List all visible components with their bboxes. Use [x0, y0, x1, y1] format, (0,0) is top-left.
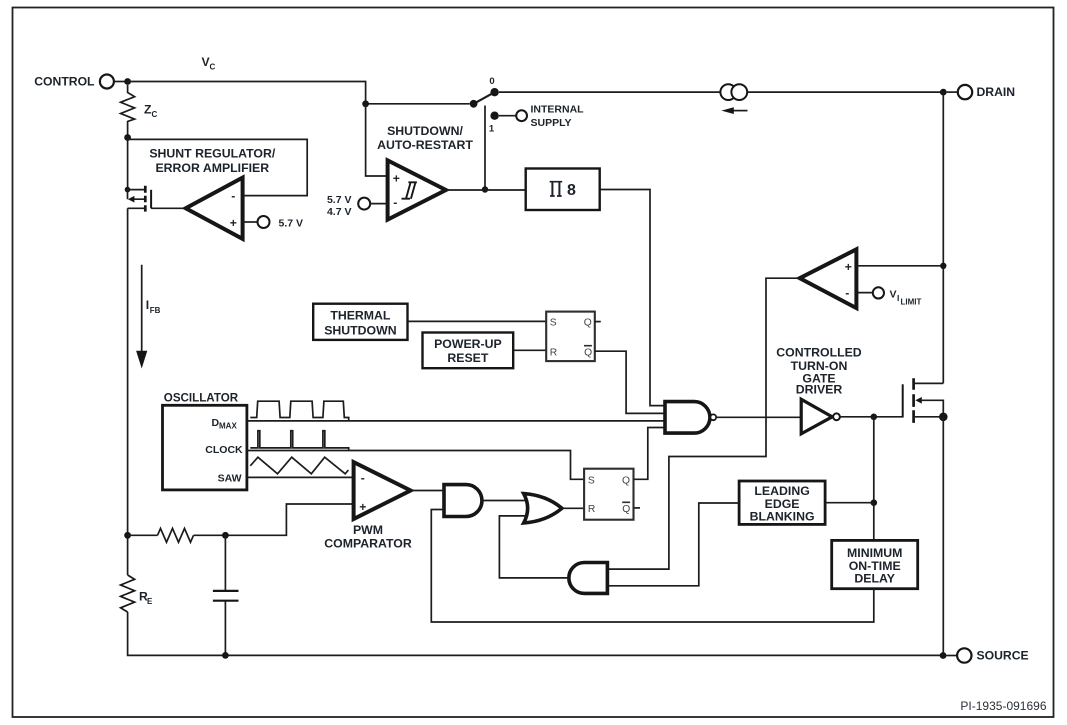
wire latch U5 Q to NAND input 4: [634, 428, 666, 480]
svg-text:S: S: [588, 475, 595, 486]
wire min delay to AND1 input: [431, 510, 874, 623]
svg-text:C: C: [152, 110, 158, 119]
node driver output junction: [871, 414, 878, 421]
wire switch control line: [484, 106, 486, 190]
svg-text:PWM: PWM: [353, 523, 383, 537]
svg-text:5.7 V: 5.7 V: [279, 217, 304, 229]
wire CLOCK output to latch U5 S: [247, 451, 584, 480]
wire AND2 output to OR1 input: [499, 516, 569, 578]
wire DMAX output to NAND input 3: [247, 420, 665, 422]
svg-text:R: R: [588, 504, 595, 515]
terminal VILIMIT: [856, 287, 921, 306]
wire driver output to output MOSFET gate: [840, 416, 903, 418]
wire SAW output to PWM comparator - input: [247, 476, 354, 478]
switch S1 auto-restart: [470, 76, 499, 135]
svg-text:-: -: [393, 196, 397, 210]
gate AND1: [444, 485, 482, 517]
block LEADING EDGE BLANKING: [739, 481, 825, 524]
svg-text:+: +: [359, 500, 366, 514]
svg-text:DRIVER: DRIVER: [796, 382, 843, 396]
svg-text:CONTROLLED: CONTROLLED: [776, 346, 862, 360]
svg-text:SHUTDOWN: SHUTDOWN: [324, 324, 397, 338]
node current limit junction: [940, 263, 946, 269]
svg-text:PI-1935-091696: PI-1935-091696: [960, 699, 1046, 713]
resistor ZC: [121, 85, 135, 138]
wire feedback node to PWM + input: [194, 504, 354, 535]
transistor Q1 shunt MOSFET: [125, 138, 186, 212]
svg-text:I: I: [897, 293, 899, 303]
terminal 5.7V/4.7V reference: [327, 194, 388, 218]
wire drain vertical: [942, 92, 944, 383]
pin CONTROL: [34, 74, 131, 88]
label SHUNT REGULATOR / ERROR AMPLIFIER: [149, 147, 276, 175]
svg-text:I: I: [146, 298, 149, 312]
wire latch U5 Qbar stub: [634, 507, 641, 509]
node shunt top junction: [124, 134, 131, 141]
wire left rail and bottom source rail: [127, 208, 129, 575]
wire junction to feedback resistor: [128, 534, 158, 536]
svg-text:+: +: [393, 172, 400, 186]
wire AND1 output to OR1 input: [482, 500, 527, 502]
svg-text:S: S: [550, 318, 557, 329]
wire divide-by-8 output to NAND input 1: [600, 190, 665, 406]
wire current limit + input to drain rail: [856, 265, 943, 267]
pin SOURCE: [947, 648, 1029, 662]
waveform DMAX square wave: [250, 401, 348, 420]
label SHUTDOWN/AUTO-RESTART: [377, 124, 473, 152]
svg-text:Q: Q: [622, 504, 630, 515]
svg-text:Q: Q: [584, 318, 592, 329]
svg-text:0: 0: [489, 76, 494, 87]
svg-text:AUTO-RESTART: AUTO-RESTART: [377, 138, 473, 152]
svg-text:INTERNAL: INTERNAL: [531, 104, 585, 116]
node capacitor top junction: [222, 532, 229, 539]
block POWER-UP RESET: [423, 333, 514, 369]
latch U5 SR (PWM): [584, 469, 633, 520]
wire shutdown + input: [366, 104, 388, 176]
svg-text:BLANKING: BLANKING: [750, 510, 815, 524]
label RE: [139, 590, 153, 607]
block oscillator: [163, 405, 247, 490]
node VC junction: [362, 100, 369, 107]
waveform CLOCK pulses: [250, 431, 348, 451]
arrow IFB: [136, 265, 147, 369]
label VC: [202, 55, 216, 72]
current source high-voltage supply: [720, 84, 747, 114]
gate OR1: [524, 494, 562, 523]
svg-text:C: C: [210, 63, 216, 72]
block THERMAL SHUTDOWN: [313, 304, 407, 340]
svg-text:CLOCK: CLOCK: [205, 444, 243, 456]
block MINIMUM ON-TIME DELAY: [832, 540, 918, 588]
svg-text:+: +: [845, 260, 852, 274]
svg-text:MAX: MAX: [219, 422, 237, 431]
node on shutdown output: [482, 186, 488, 192]
svg-text:DELAY: DELAY: [854, 572, 895, 586]
node feedback left junction: [124, 532, 131, 539]
svg-text:1: 1: [489, 124, 495, 135]
terminal INTERNAL SUPPLY: [499, 104, 584, 130]
wire OR1 output to latch U5 R: [562, 507, 584, 509]
wire blanking right to driver junction: [825, 502, 874, 504]
transistor Q2 output MOSFET: [903, 378, 948, 423]
resistor feedback: [158, 528, 194, 542]
node drain junction: [940, 89, 947, 96]
svg-text:FB: FB: [150, 306, 161, 315]
svg-text:+: +: [230, 216, 237, 230]
capacitor C1: [213, 535, 239, 655]
svg-text:CONTROL: CONTROL: [34, 74, 95, 88]
wire MOSFET source to source rail: [942, 417, 944, 656]
svg-text:R: R: [550, 347, 557, 358]
wire current source to DRAIN: [747, 91, 943, 93]
label CONTROLLED TURN-ON GATE DRIVER: [776, 346, 862, 397]
svg-text:RESET: RESET: [447, 351, 488, 365]
resistor RE: [121, 575, 135, 612]
pin DRAIN: [947, 85, 1015, 99]
svg-text:4.7 V: 4.7 V: [327, 206, 352, 218]
svg-text:SUPPLY: SUPPLY: [531, 117, 572, 129]
wire driver junction down to min delay: [873, 417, 875, 541]
svg-text:E: E: [147, 597, 153, 606]
wire blanking left to AND2 input: [607, 503, 739, 586]
terminal 5.7V reference: [258, 216, 270, 228]
svg-text:-: -: [845, 286, 849, 300]
label PWM COMPARATOR: [324, 523, 412, 551]
gate AND2 (reverse facing): [569, 563, 608, 594]
svg-text:V: V: [890, 289, 897, 301]
svg-text:LIMIT: LIMIT: [901, 297, 922, 306]
latch U3 SR (fault): [546, 312, 595, 362]
svg-text:8: 8: [567, 182, 576, 199]
svg-text:DRAIN: DRAIN: [977, 85, 1016, 99]
svg-text:SHUTDOWN/: SHUTDOWN/: [387, 124, 463, 138]
svg-text:THERMAL: THERMAL: [330, 309, 391, 323]
svg-text:COMPARATOR: COMPARATOR: [324, 537, 412, 551]
op-amp U1 error amplifier: [186, 178, 243, 239]
svg-text:-: -: [361, 471, 365, 485]
wire power-up reset to latch R: [513, 349, 546, 351]
svg-text:-: -: [231, 189, 235, 203]
wire PWM output to AND1 input: [411, 490, 444, 492]
wire current limit output to AND2 input: [607, 278, 799, 569]
comparator U6 current limit: [800, 249, 857, 308]
svg-text:SHUNT REGULATOR/: SHUNT REGULATOR/: [149, 147, 276, 161]
svg-text:Q: Q: [584, 347, 592, 358]
wire NAND output to gate driver: [716, 416, 801, 418]
wire switch 0-contact to drain rail: [499, 91, 721, 93]
waveform SAW triangle wave: [250, 457, 348, 474]
wire shutdown output to divide-by-8: [446, 189, 526, 191]
svg-text:SOURCE: SOURCE: [977, 649, 1029, 663]
comparator U2 shutdown/auto-restart: [388, 160, 446, 219]
label ZC: [144, 103, 158, 120]
wire latch U3 Q stub: [595, 321, 601, 323]
svg-text:ERROR AMPLIFIER: ERROR AMPLIFIER: [155, 161, 269, 175]
comparator U4 PWM: [354, 462, 411, 519]
svg-text:5.7 V: 5.7 V: [327, 194, 352, 206]
wire latch U3 Qbar to NAND input 2: [595, 351, 665, 413]
node source rail junction: [940, 652, 947, 659]
node capacitor bottom junction: [222, 652, 229, 659]
label IFB: [146, 298, 161, 315]
svg-text:OSCILLATOR: OSCILLATOR: [164, 391, 239, 404]
svg-text:POWER-UP: POWER-UP: [434, 337, 502, 351]
buffer U7 gate driver: [801, 399, 840, 434]
node leading edge blanking junction: [871, 499, 878, 506]
wire VC rail from CONTROL to switch common: [128, 82, 470, 104]
wire U1 + input to 5.7V reference: [243, 221, 258, 223]
svg-text:SAW: SAW: [218, 472, 242, 484]
block divide-by-8 counter: [526, 169, 600, 211]
shunt regulator box outline / feedback wire: [128, 139, 308, 195]
wire thermal shutdown to latch S: [408, 320, 547, 322]
gate NAND: [665, 402, 716, 434]
svg-text:Q: Q: [622, 475, 630, 486]
